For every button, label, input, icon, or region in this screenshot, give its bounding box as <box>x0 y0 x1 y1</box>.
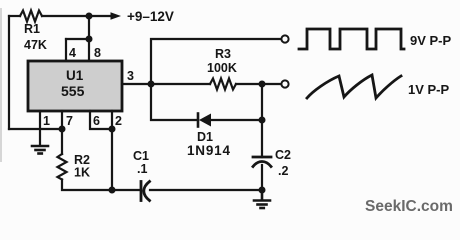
square wave trace <box>299 29 404 49</box>
terminal square-wave output circle <box>281 35 288 42</box>
svg-text:SeekIC.com: SeekIC.com <box>365 198 453 215</box>
svg-text:+9–12V: +9–12V <box>127 9 174 24</box>
wire diode to C2 branch <box>211 119 262 121</box>
node pin 2 junction dot <box>109 126 116 133</box>
scan edge artifact line <box>0 8 2 162</box>
node R3 output junction dot <box>259 81 266 88</box>
svg-text:.2: .2 <box>278 164 288 178</box>
wire pin 7 vertical from IC bottom to R2 <box>61 111 63 154</box>
wire diode branch from pin3 junction <box>151 84 198 120</box>
ground below C2 <box>254 190 270 208</box>
svg-text:C1: C1 <box>133 149 149 163</box>
node diode junction dot <box>259 117 266 124</box>
wire C2 bottom to rail <box>261 165 263 190</box>
terminal sawtooth output circle <box>281 80 288 87</box>
wire left vertical from R1 down to bottom-left rail <box>8 16 10 129</box>
wire pin 4 vertical to IC top <box>65 39 67 61</box>
resistor R3 <box>210 79 236 90</box>
svg-text:D1: D1 <box>197 130 213 144</box>
svg-text:1: 1 <box>43 114 50 128</box>
node pin4/pin8 stub junction dot <box>86 36 93 43</box>
svg-text:4: 4 <box>69 46 76 60</box>
svg-text:9V P-P: 9V P-P <box>410 33 452 48</box>
wire stub pin4 to pin8 <box>66 38 89 40</box>
wire bottom-left rail to pin 7 <box>9 128 62 130</box>
svg-text:1N914: 1N914 <box>187 143 231 158</box>
svg-text:C2: C2 <box>275 148 291 162</box>
wire square-wave output branch <box>151 39 281 84</box>
svg-text:1K: 1K <box>74 166 90 180</box>
svg-text:7: 7 <box>66 114 73 128</box>
diode D1 <box>198 114 211 127</box>
svg-text:1V P-P: 1V P-P <box>408 82 450 97</box>
node pin2/bottom-rail junction dot <box>109 187 116 194</box>
wire R2 bottom to bottom rail <box>62 180 141 191</box>
capacitor C2 <box>253 157 271 167</box>
svg-text:.1: .1 <box>137 162 147 176</box>
wire to sawtooth terminal <box>262 83 281 85</box>
svg-text:555: 555 <box>61 83 85 99</box>
wire bottom rail C1 to C2 ground <box>150 189 262 191</box>
wire C2 branch vertical <box>261 84 263 157</box>
node C2 ground junction dot <box>259 187 266 194</box>
ground below pin 1 <box>32 146 48 154</box>
wire pin 1 vertical from IC bottom to ground <box>39 111 41 145</box>
wire pin3 junction to R3 <box>151 83 210 85</box>
svg-text:2: 2 <box>115 114 122 128</box>
svg-text:3: 3 <box>127 69 134 83</box>
wire R3 to sawtooth junction <box>236 83 262 85</box>
node pin 7 junction dot <box>59 126 66 133</box>
svg-text:8: 8 <box>94 46 101 60</box>
op-amp U1 555 timer body <box>28 61 122 111</box>
svg-text:R3: R3 <box>215 47 231 61</box>
capacitor C1 <box>141 182 150 201</box>
svg-text:6: 6 <box>93 114 100 128</box>
svg-text:100K: 100K <box>207 61 237 75</box>
supply arrow <box>89 12 121 20</box>
resistor R1 <box>20 11 42 22</box>
node pin 3 junction dot <box>148 81 155 88</box>
wire pin 3 from IC to junction <box>122 83 151 85</box>
wire top rail left segment <box>9 15 20 17</box>
wire top rail right segment to supply junction <box>42 15 89 17</box>
svg-text:47K: 47K <box>24 38 47 52</box>
wire pin 6 to pin 2 <box>90 111 112 129</box>
node supply junction dot <box>86 13 93 20</box>
svg-text:R1: R1 <box>24 22 40 36</box>
svg-text:U1: U1 <box>66 68 84 83</box>
resistor R2 <box>58 154 67 180</box>
wire pin 8 vertical from supply junction to IC top <box>88 16 90 61</box>
sawtooth trace <box>307 75 401 98</box>
wire pin 2 vertical to bottom rail <box>111 111 113 190</box>
